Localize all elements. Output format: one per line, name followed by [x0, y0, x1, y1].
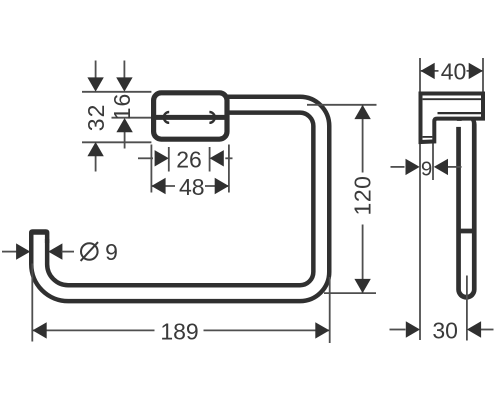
dim 40 right arrow — [469, 63, 483, 79]
label diameter 9 — [81, 243, 98, 260]
side view: long left extension line (wall face) — [419, 58, 421, 340]
extension line block-mid left — [112, 117, 152, 119]
dim 9 left arrow — [391, 166, 405, 168]
dim 26 right arrow — [225, 157, 232, 159]
svg-text:32: 32 — [83, 104, 109, 132]
dim 189 extension lines — [31, 264, 33, 342]
svg-text:48: 48 — [179, 174, 205, 200]
dim diameter 9 right arrow — [48, 243, 62, 259]
side view inner edge line bottom — [438, 112, 482, 114]
dim 120 extension lines — [307, 104, 377, 106]
svg-text:16: 16 — [109, 93, 135, 121]
dim 120 top arrow (up) — [354, 105, 370, 119]
dim 32 top arrow (down) — [95, 61, 97, 80]
extension line block-bottom left — [82, 141, 151, 143]
svg-text:9: 9 — [105, 239, 118, 265]
dim 32 bottom arrow (up) — [95, 154, 97, 172]
side view hanging bar white core — [461, 124, 472, 290]
svg-text:9: 9 — [421, 158, 432, 181]
svg-text:30: 30 — [432, 317, 458, 343]
dim 48 line — [151, 185, 175, 187]
block mid slot line — [151, 115, 229, 120]
side view plate bottom inner line — [423, 136, 433, 138]
dim 189 line — [33, 329, 155, 331]
dim 30 center extension line through bar — [466, 276, 468, 341]
dim 30 right arrow — [481, 329, 494, 331]
side view hanging bar black capsule — [456, 125, 476, 290]
ring tube outline (front view), outer black band — [39, 105, 321, 294]
side view bar joint tick — [457, 229, 476, 234]
left screw-hole arc — [164, 112, 169, 123]
dim 9 right extension line (side view) — [432, 144, 434, 181]
mounting block (front view) — [154, 93, 227, 139]
side view inner edge line top — [423, 98, 481, 100]
dim 48 left arrow — [151, 178, 165, 194]
right screw-hole arc — [209, 112, 214, 123]
dim 16 bottom arrow (up) — [124, 130, 126, 149]
ring stub end cap (rounded) — [29, 229, 49, 243]
dim 26 left arrow — [138, 157, 153, 159]
dim 16 top arrow (down) — [123, 61, 125, 80]
dim 189 left arrow — [33, 322, 47, 338]
svg-text:120: 120 — [349, 176, 375, 216]
dim 26 extension lines — [168, 147, 170, 172]
side view wall plate and block profile — [421, 94, 484, 143]
dim 48 extension lines — [150, 145, 152, 193]
svg-text:40: 40 — [441, 58, 467, 84]
dim 120 line — [362, 105, 364, 172]
dim 40 left arrow — [421, 63, 435, 79]
dim 30 left arrow — [390, 329, 406, 331]
side view: right extension line of 40 — [482, 58, 484, 92]
dim diameter 9 left arrow — [2, 251, 17, 253]
svg-text:26: 26 — [176, 146, 202, 172]
extension line block-top left — [82, 91, 151, 93]
dim 9 right arrow — [448, 166, 462, 168]
ring tube white core (front view) — [39, 105, 321, 294]
svg-text:189: 189 — [160, 318, 198, 344]
dim 40 line — [421, 70, 439, 72]
side view bar left edge trim (white) — [455, 121, 462, 127]
dim 120 bottom arrow (down) — [354, 279, 370, 293]
dim 189 right arrow — [315, 322, 329, 338]
dim 48 right arrow — [215, 178, 229, 194]
